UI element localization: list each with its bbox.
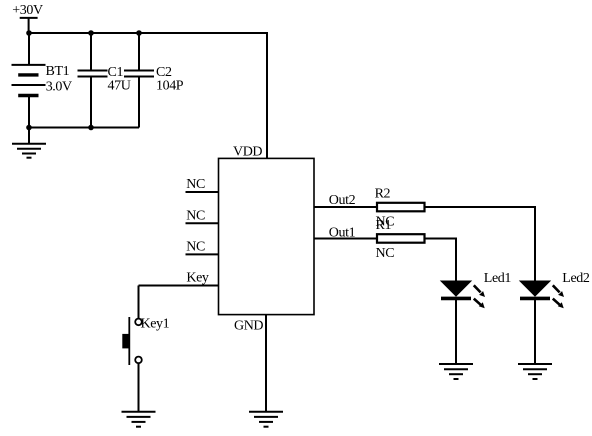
- ground LED2: [518, 364, 552, 379]
- wire R1 to LED1: [425, 239, 457, 282]
- capacitor C2: [124, 33, 184, 128]
- pin NC 3: [186, 240, 219, 255]
- battery BT1: [12, 33, 73, 128]
- ground LED1: [439, 364, 473, 379]
- junction battery bottom: [26, 125, 32, 131]
- LED Led2: [520, 271, 590, 364]
- svg-text:R2: R2: [375, 187, 391, 202]
- svg-text:NC: NC: [186, 240, 205, 255]
- wire bottom bus: [28, 127, 139, 129]
- svg-text:3.0V: 3.0V: [46, 80, 72, 95]
- junction C1 top: [88, 30, 94, 36]
- LED Led1: [441, 271, 511, 364]
- IC U1 body: [219, 158, 315, 314]
- pin NC 1: [186, 177, 219, 192]
- resistor R1: [376, 234, 425, 261]
- svg-text:Key1: Key1: [141, 317, 170, 332]
- wire Key pin down to button: [138, 286, 140, 319]
- svg-text:Out2: Out2: [329, 193, 356, 208]
- power +30V: [12, 3, 43, 33]
- pin Out2: [314, 193, 377, 208]
- wire button to ground: [138, 363, 140, 412]
- resistor R2: [375, 187, 425, 212]
- svg-text:+30V: +30V: [12, 3, 43, 18]
- svg-text:Out1: Out1: [329, 225, 356, 240]
- svg-text:Led2: Led2: [562, 271, 590, 286]
- svg-text:NC: NC: [376, 246, 395, 261]
- pin NC 2: [186, 208, 219, 223]
- capacitor C1: [78, 33, 131, 128]
- ground GND pin: [249, 412, 283, 427]
- pin Key: [139, 270, 219, 285]
- svg-text:VDD: VDD: [233, 145, 262, 160]
- svg-text:BT1: BT1: [46, 64, 70, 79]
- ground Key1: [122, 412, 156, 427]
- svg-text:GND: GND: [234, 319, 263, 334]
- pin GND wire: [265, 315, 267, 412]
- svg-text:104P: 104P: [156, 78, 184, 93]
- pushbutton Key1: [122, 317, 169, 366]
- svg-text:NC: NC: [186, 208, 205, 223]
- svg-text:Key: Key: [186, 270, 209, 285]
- junction C1 bottom: [88, 125, 94, 131]
- junction C2 top: [136, 30, 142, 36]
- pin Out1: [314, 225, 377, 240]
- ground battery: [12, 128, 46, 158]
- svg-text:47U: 47U: [108, 78, 131, 93]
- wire R2 to LED2: [425, 207, 536, 281]
- svg-text:R1: R1: [376, 218, 392, 233]
- svg-text:NC: NC: [186, 177, 205, 192]
- junction battery top: [26, 30, 32, 36]
- wire top bus: [28, 32, 267, 34]
- svg-text:Led1: Led1: [484, 271, 512, 286]
- wire VDD drop: [266, 32, 268, 159]
